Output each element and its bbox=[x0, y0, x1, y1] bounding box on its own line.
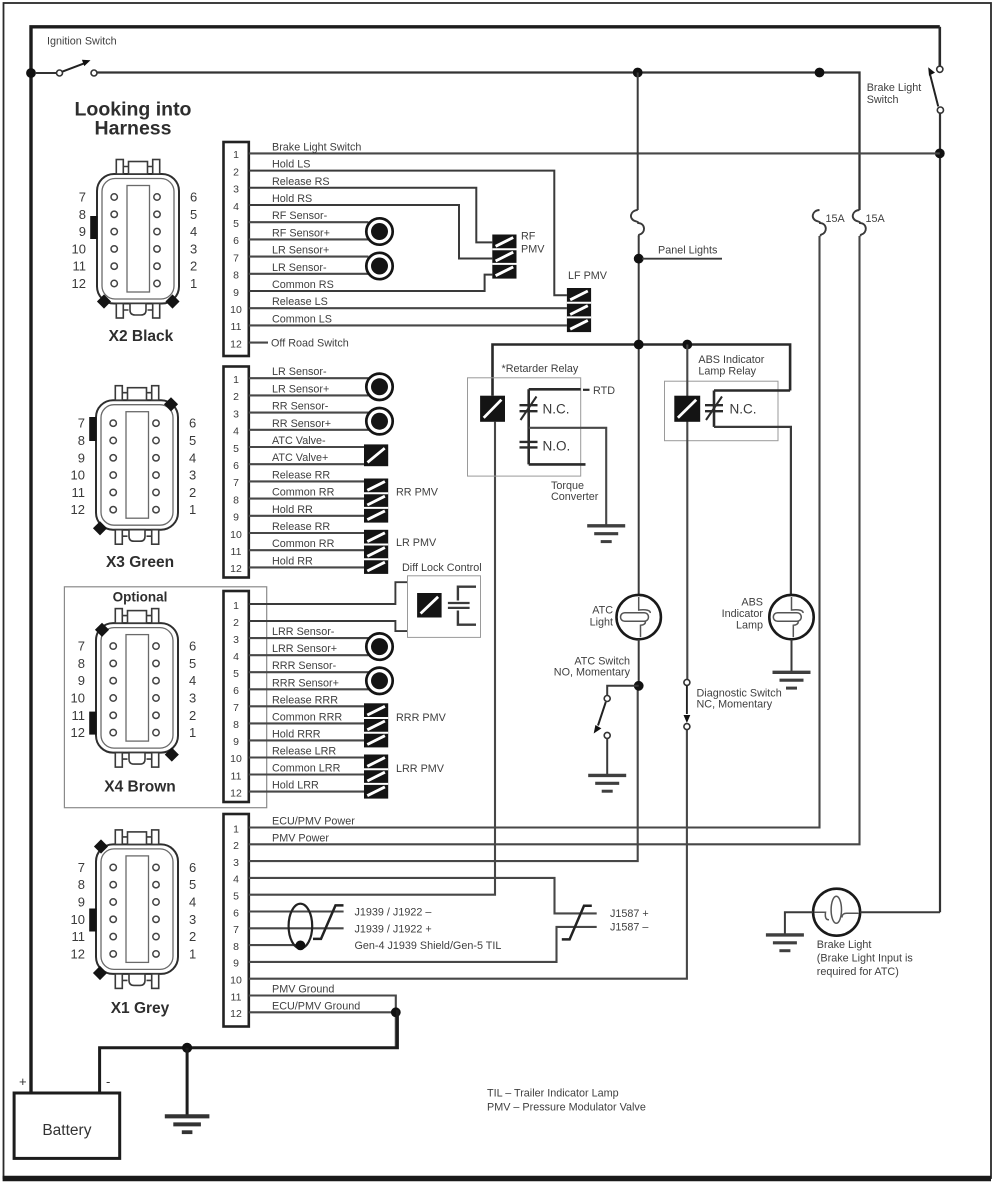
wire X1-6 J1939- bbox=[249, 910, 344, 912]
svg-text:5: 5 bbox=[189, 877, 196, 892]
wire X2-10 release LS to LF PMV bbox=[249, 307, 567, 309]
ABS relay coil bbox=[674, 396, 700, 422]
svg-text:5: 5 bbox=[190, 207, 197, 222]
wire ATC light to junction bbox=[638, 639, 640, 686]
svg-text:Ignition Switch: Ignition Switch bbox=[47, 36, 117, 48]
svg-text:X4 Brown: X4 Brown bbox=[104, 779, 175, 796]
svg-text:4: 4 bbox=[233, 426, 239, 438]
svg-text:Release RS: Release RS bbox=[272, 176, 330, 188]
connector X1 bottom-left lock tab bbox=[93, 966, 107, 980]
svg-text:1: 1 bbox=[189, 725, 196, 740]
svg-text:Indicator: Indicator bbox=[722, 608, 764, 620]
wire X3-12 hold RR bbox=[249, 566, 364, 568]
svg-text:PMV: PMV bbox=[521, 244, 545, 256]
wire X4-6 RRR sensor+ bbox=[249, 688, 369, 690]
connector X4 body bbox=[96, 609, 178, 768]
svg-text:N.C.: N.C. bbox=[543, 402, 570, 417]
wire ABS relay coil vertical bbox=[686, 345, 688, 680]
connector X1 terminal strip bbox=[224, 814, 249, 1027]
wire X4-2 to diff lock coil bbox=[249, 618, 430, 632]
svg-text:J1587 +: J1587 + bbox=[610, 908, 649, 920]
svg-text:TIL – Trailer Indicator Lamp: TIL – Trailer Indicator Lamp bbox=[487, 1088, 619, 1100]
wire junction to chassis ground bbox=[186, 1048, 189, 1116]
wire ABS relay NC top feed bbox=[714, 389, 790, 392]
svg-text:10: 10 bbox=[71, 468, 85, 483]
svg-text:ATC Valve+: ATC Valve+ bbox=[272, 452, 328, 464]
svg-text:Converter: Converter bbox=[551, 491, 599, 503]
node junction battery ground bbox=[182, 1043, 192, 1053]
svg-text:12: 12 bbox=[230, 1008, 242, 1020]
valve LRR PMV bbox=[364, 755, 388, 799]
svg-text:11: 11 bbox=[231, 770, 242, 782]
svg-text:Panel Lights: Panel Lights bbox=[658, 245, 718, 257]
diff lock control group box bbox=[408, 576, 481, 638]
wire retarder NC top to RTD bbox=[529, 388, 581, 391]
svg-text:9: 9 bbox=[78, 450, 85, 465]
node junction bus/ATC light bbox=[634, 340, 644, 350]
wire X3-10 release RR bbox=[249, 532, 364, 534]
svg-text:12: 12 bbox=[72, 276, 86, 291]
svg-text:10: 10 bbox=[230, 753, 242, 765]
node J1939 shield tie bbox=[296, 941, 306, 951]
connector X1 key mark bbox=[89, 909, 96, 932]
svg-text:7: 7 bbox=[233, 924, 239, 936]
connector X1 body bbox=[96, 830, 178, 989]
svg-text:3: 3 bbox=[190, 241, 197, 256]
svg-text:Gen-4 J1939 Shield/Gen-5 TIL: Gen-4 J1939 Shield/Gen-5 TIL bbox=[355, 940, 502, 952]
svg-text:12: 12 bbox=[71, 502, 85, 517]
wire X1-12 ECU/PMV ground bbox=[249, 1012, 396, 1048]
wire brake light to ground bbox=[785, 912, 813, 933]
svg-text:2: 2 bbox=[233, 840, 239, 852]
svg-text:-: - bbox=[106, 1074, 110, 1089]
svg-text:Common RR: Common RR bbox=[272, 487, 335, 499]
svg-text:Battery: Battery bbox=[42, 1122, 91, 1139]
fuse 15A no.1 bbox=[813, 210, 826, 236]
wire retarder common to torque converter ground bbox=[529, 428, 607, 525]
wire X3-9 hold RR bbox=[249, 515, 364, 517]
wire X2-8 LR sensor- bbox=[249, 273, 369, 275]
svg-text:PMV – Pressure Modulator Valve: PMV – Pressure Modulator Valve bbox=[487, 1102, 646, 1114]
svg-text:2: 2 bbox=[233, 617, 239, 629]
svg-text:3: 3 bbox=[233, 184, 239, 196]
valve LR PMV bbox=[364, 530, 388, 574]
J1939 twisted pair mark bbox=[313, 905, 344, 939]
svg-text:Hold LS: Hold LS bbox=[272, 159, 310, 171]
svg-text:Diff Lock Control: Diff Lock Control bbox=[402, 562, 482, 574]
svg-text:1: 1 bbox=[190, 276, 197, 291]
svg-text:7: 7 bbox=[78, 416, 85, 431]
connector X4 pin numbers left bbox=[71, 639, 85, 741]
svg-text:5: 5 bbox=[189, 656, 196, 671]
svg-text:X1 Grey: X1 Grey bbox=[111, 1000, 170, 1017]
wire X1-2 PMV power to fuse 2 bbox=[249, 236, 860, 844]
wire X1-4 to J1587+ bbox=[249, 878, 597, 914]
wire X4-4 LRR sensor+ bbox=[249, 654, 369, 656]
valve LF PMV bbox=[567, 288, 591, 332]
wire X1-5 to retarder relay coil bbox=[249, 422, 495, 895]
wire X4-10 release LRR bbox=[249, 756, 364, 758]
svg-text:15A: 15A bbox=[826, 213, 846, 225]
wire X3-2 LR sensor+ bbox=[249, 394, 369, 396]
wire ABS relay NC out to ABS lamp bbox=[714, 427, 791, 595]
svg-text:RF Sensor-: RF Sensor- bbox=[272, 210, 328, 222]
svg-text:NC, Momentary: NC, Momentary bbox=[697, 699, 773, 711]
wire X1-8 J1939 shield bbox=[249, 944, 299, 946]
svg-text:1: 1 bbox=[189, 502, 196, 517]
svg-text:8: 8 bbox=[78, 877, 85, 892]
diagnostic switch bbox=[684, 679, 691, 729]
svg-text:ECU/PMV Power: ECU/PMV Power bbox=[272, 816, 355, 828]
svg-text:7: 7 bbox=[79, 190, 86, 205]
wire X2-5 RF sensor- bbox=[249, 221, 369, 223]
svg-text:7: 7 bbox=[78, 639, 85, 654]
svg-text:RR Sensor+: RR Sensor+ bbox=[272, 418, 331, 430]
svg-text:4: 4 bbox=[190, 224, 197, 239]
wire X3-5 ATC valve- bbox=[249, 446, 364, 448]
ATC switch bbox=[594, 696, 611, 739]
svg-text:9: 9 bbox=[78, 673, 85, 688]
LR wheel speed sensor (axle 2) bbox=[366, 374, 392, 400]
svg-text:LRR Sensor+: LRR Sensor+ bbox=[272, 643, 337, 655]
svg-text:9: 9 bbox=[233, 736, 239, 748]
svg-text:LRR PMV: LRR PMV bbox=[396, 763, 445, 775]
wire frame drop to brake light switch bbox=[938, 27, 941, 67]
ABS relay contact N.C. bbox=[705, 391, 723, 427]
svg-text:10: 10 bbox=[71, 691, 85, 706]
svg-text:3: 3 bbox=[189, 912, 196, 927]
svg-text:Light: Light bbox=[590, 617, 613, 629]
wire junction to ATC switch bbox=[607, 686, 639, 696]
diff lock control coil bbox=[417, 593, 442, 618]
svg-text:*Retarder Relay: *Retarder Relay bbox=[502, 363, 579, 375]
svg-text:Brake Light Switch: Brake Light Switch bbox=[272, 141, 361, 153]
svg-text:LR PMV: LR PMV bbox=[396, 537, 437, 549]
LRR wheel speed sensor bbox=[366, 633, 392, 659]
svg-text:PMV Power: PMV Power bbox=[272, 832, 329, 844]
svg-text:6: 6 bbox=[233, 907, 239, 919]
wire X1-9 to J1587- bbox=[249, 927, 597, 962]
pin numbers X3 strip bbox=[230, 374, 242, 575]
svg-text:3: 3 bbox=[233, 857, 239, 869]
wire ATC switch to ground bbox=[606, 738, 608, 774]
svg-text:5: 5 bbox=[189, 433, 196, 448]
svg-text:LF PMV: LF PMV bbox=[568, 270, 608, 282]
node junction brake light switch / X2 pin1 bbox=[935, 149, 945, 159]
connector X4 top-left lock tab bbox=[95, 623, 109, 637]
svg-text:Off Road Switch: Off Road Switch bbox=[271, 338, 349, 350]
svg-text:11: 11 bbox=[231, 546, 242, 558]
fuse panel lights bbox=[631, 210, 644, 236]
diff lock control contact bbox=[448, 587, 476, 625]
svg-text:Common LS: Common LS bbox=[272, 313, 332, 325]
svg-text:J1939 / J1922 +: J1939 / J1922 + bbox=[355, 923, 432, 935]
ground torque converter bbox=[587, 526, 625, 542]
svg-text:(Brake Light Input is: (Brake Light Input is bbox=[817, 952, 914, 964]
svg-text:8: 8 bbox=[233, 719, 239, 731]
svg-text:7: 7 bbox=[78, 860, 85, 875]
svg-text:X2 Black: X2 Black bbox=[109, 328, 174, 345]
svg-text:11: 11 bbox=[72, 485, 86, 500]
wire X4-9 hold RRR bbox=[249, 739, 364, 741]
valve ATC bbox=[364, 444, 388, 466]
svg-text:1: 1 bbox=[233, 600, 239, 612]
svg-text:ATC: ATC bbox=[592, 605, 613, 617]
svg-text:Common LRR: Common LRR bbox=[272, 763, 341, 775]
svg-text:J1939 / J1922 –: J1939 / J1922 – bbox=[355, 907, 432, 919]
fuse 15A no.2 bbox=[853, 210, 866, 236]
svg-text:Release RR: Release RR bbox=[272, 521, 330, 533]
svg-text:6: 6 bbox=[189, 860, 196, 875]
wire X3-11 common RR bbox=[249, 549, 364, 551]
wire X3-1 LR sensor- bbox=[249, 377, 369, 379]
svg-text:NO, Momentary: NO, Momentary bbox=[554, 667, 631, 679]
wire retarder NO stub bbox=[529, 463, 586, 466]
svg-text:8: 8 bbox=[233, 270, 239, 282]
svg-text:8: 8 bbox=[78, 656, 85, 671]
svg-text:1: 1 bbox=[233, 149, 239, 161]
connector X2 bottom-right lock tab bbox=[165, 294, 179, 308]
svg-text:J1587 –: J1587 – bbox=[610, 922, 648, 934]
svg-text:Release RRR: Release RRR bbox=[272, 694, 338, 706]
svg-text:Hold RS: Hold RS bbox=[272, 193, 312, 205]
wire X4-12 hold LRR bbox=[249, 791, 364, 793]
svg-text:X3 Green: X3 Green bbox=[106, 554, 174, 571]
node junction on left frame bbox=[26, 68, 36, 78]
wire X2-6 RF sensor+ bbox=[249, 238, 369, 240]
svg-text:6: 6 bbox=[233, 460, 239, 472]
wire brake light switch down right side bbox=[939, 113, 941, 912]
svg-text:6: 6 bbox=[190, 190, 197, 205]
svg-text:RR Sensor-: RR Sensor- bbox=[272, 401, 329, 413]
retarder relay coil bbox=[480, 396, 505, 422]
connector X4 pin numbers right bbox=[189, 639, 196, 741]
wire X3-7 release RR bbox=[249, 480, 364, 482]
connector X3 terminal strip bbox=[224, 367, 249, 578]
connector X4 terminal strip bbox=[224, 591, 249, 802]
brake light switch bbox=[928, 66, 943, 113]
ABS relay group box bbox=[665, 381, 779, 441]
svg-text:ECU/PMV Ground: ECU/PMV Ground bbox=[272, 1000, 360, 1012]
svg-text:Release LS: Release LS bbox=[272, 296, 328, 308]
connector X3 pin numbers left bbox=[71, 416, 85, 518]
node junction bus/ABS relay coil bbox=[682, 340, 692, 350]
svg-text:RTD: RTD bbox=[593, 385, 615, 397]
svg-text:ABS: ABS bbox=[741, 597, 763, 609]
connector X2 terminal strip bbox=[224, 142, 249, 356]
wire X3-4 RR sensor+ bbox=[249, 429, 369, 431]
wire X2-4 hold RS to RF PMV bbox=[249, 205, 492, 259]
svg-text:5: 5 bbox=[233, 218, 239, 230]
wire panel lights stub bbox=[642, 258, 722, 260]
wire X1-11 PMV ground bbox=[249, 996, 396, 1013]
connector X1 top-left lock tab bbox=[94, 839, 108, 853]
svg-text:8: 8 bbox=[233, 494, 239, 506]
svg-text:12: 12 bbox=[230, 787, 242, 799]
svg-text:7: 7 bbox=[233, 477, 239, 489]
node junction pin11/pin12 ground tie bbox=[391, 1007, 401, 1017]
svg-text:7: 7 bbox=[233, 252, 239, 264]
lamp brake light bbox=[813, 889, 860, 936]
svg-text:2: 2 bbox=[189, 929, 196, 944]
retarder relay contact N.C. bbox=[520, 389, 538, 464]
svg-text:2: 2 bbox=[190, 259, 197, 274]
svg-text:11: 11 bbox=[231, 991, 242, 1003]
svg-text:RF: RF bbox=[521, 231, 536, 243]
svg-text:15A: 15A bbox=[866, 213, 886, 225]
svg-text:8: 8 bbox=[78, 433, 85, 448]
svg-text:required for ATC): required for ATC) bbox=[817, 966, 899, 978]
svg-text:10: 10 bbox=[230, 529, 242, 541]
svg-text:2: 2 bbox=[189, 708, 196, 723]
wire below panel fuse to ATC light bbox=[638, 236, 640, 595]
svg-text:RR PMV: RR PMV bbox=[396, 486, 439, 498]
connector X4 bottom-right lock tab bbox=[165, 748, 179, 762]
svg-text:Common RR: Common RR bbox=[272, 538, 335, 550]
svg-text:2: 2 bbox=[233, 391, 239, 403]
connector X3 bottom-left lock tab bbox=[93, 521, 107, 535]
svg-text:ABS Indicator: ABS Indicator bbox=[698, 354, 764, 366]
svg-text:LR Sensor-: LR Sensor- bbox=[272, 262, 327, 274]
svg-text:LR Sensor-: LR Sensor- bbox=[272, 366, 327, 378]
ground ABS indicator lamp bbox=[773, 672, 811, 688]
svg-text:9: 9 bbox=[233, 287, 239, 299]
svg-text:+: + bbox=[19, 1074, 27, 1089]
connector X1 pin numbers left bbox=[71, 860, 85, 962]
wire X4-3 LRR sensor- bbox=[249, 637, 369, 639]
svg-text:2: 2 bbox=[233, 166, 239, 178]
wire X3-6 ATC valve+ bbox=[249, 463, 364, 465]
wire ABS lamp to ground bbox=[791, 639, 793, 671]
valve RRR PMV bbox=[364, 703, 388, 747]
svg-text:10: 10 bbox=[230, 975, 242, 987]
wire X2-11 common LS to LF PMV bbox=[249, 324, 567, 326]
svg-text:12: 12 bbox=[230, 563, 242, 575]
svg-text:6: 6 bbox=[189, 639, 196, 654]
ignition switch bbox=[35, 60, 97, 76]
wire relay feed bus bbox=[493, 345, 791, 396]
svg-text:Common RS: Common RS bbox=[272, 279, 334, 291]
connector X3 top-right lock tab bbox=[164, 397, 178, 411]
wire X4-1 to diff lock coil bbox=[249, 582, 430, 604]
svg-text:Hold RR: Hold RR bbox=[272, 555, 313, 567]
svg-text:12: 12 bbox=[71, 725, 85, 740]
wire X2-12 off road switch stub bbox=[249, 342, 268, 344]
svg-text:12: 12 bbox=[71, 946, 85, 961]
optional group box bbox=[64, 587, 266, 808]
svg-text:3: 3 bbox=[233, 408, 239, 420]
svg-text:5: 5 bbox=[233, 668, 239, 680]
LR wheel speed sensor bbox=[366, 253, 392, 279]
svg-text:6: 6 bbox=[233, 685, 239, 697]
wire X4-5 RRR sensor- bbox=[249, 671, 369, 673]
svg-text:9: 9 bbox=[79, 224, 86, 239]
svg-text:6: 6 bbox=[189, 416, 196, 431]
svg-text:RRR Sensor+: RRR Sensor+ bbox=[272, 677, 339, 689]
svg-text:1: 1 bbox=[233, 374, 239, 386]
RR wheel speed sensor bbox=[366, 408, 392, 434]
svg-text:10: 10 bbox=[71, 912, 85, 927]
svg-text:LR Sensor+: LR Sensor+ bbox=[272, 383, 329, 395]
connector X2 key mark bbox=[90, 216, 97, 239]
wire X2-9 common RS to RF PMV bbox=[249, 275, 492, 291]
connector X4 key mark bbox=[89, 712, 96, 735]
wire X3-3 RR sensor- bbox=[249, 412, 369, 414]
wire X1-7 J1939+ bbox=[249, 927, 344, 929]
svg-text:1: 1 bbox=[189, 946, 196, 961]
svg-text:Lamp Relay: Lamp Relay bbox=[698, 366, 756, 378]
svg-text:Release LRR: Release LRR bbox=[272, 746, 336, 758]
connector X2 pin numbers right bbox=[190, 190, 197, 292]
wire X3-8 common RR bbox=[249, 498, 364, 500]
svg-text:RF Sensor+: RF Sensor+ bbox=[272, 227, 330, 239]
svg-text:4: 4 bbox=[233, 651, 239, 663]
retarder relay group box bbox=[468, 378, 581, 476]
svg-text:Hold LRR: Hold LRR bbox=[272, 780, 319, 792]
svg-text:Lamp: Lamp bbox=[736, 620, 763, 632]
wire X1-1 ECU/PMV power to fuse 1 bbox=[249, 236, 820, 828]
svg-text:Hold RRR: Hold RRR bbox=[272, 728, 321, 740]
pin numbers X2 strip bbox=[230, 149, 242, 350]
svg-text:2: 2 bbox=[189, 485, 196, 500]
svg-text:LR Sensor+: LR Sensor+ bbox=[272, 245, 329, 257]
wire brake light to switch drop bbox=[860, 911, 940, 913]
svg-text:5: 5 bbox=[233, 443, 239, 455]
svg-text:4: 4 bbox=[189, 673, 196, 688]
RTD stub bbox=[583, 389, 590, 391]
wire battery negative to ECU grounds bbox=[100, 1010, 398, 1093]
svg-text:3: 3 bbox=[233, 634, 239, 646]
wire panel lights vertical bbox=[637, 73, 639, 211]
svg-text:4: 4 bbox=[189, 895, 196, 910]
wire X2-7 LR sensor+ bbox=[249, 256, 369, 258]
lamp ATC light bbox=[617, 595, 661, 639]
svg-text:11: 11 bbox=[231, 321, 242, 333]
RRR wheel speed sensor bbox=[366, 668, 392, 694]
svg-text:4: 4 bbox=[233, 201, 239, 213]
svg-text:11: 11 bbox=[73, 259, 87, 274]
ground battery (large) bbox=[165, 1116, 210, 1132]
pin numbers X1 strip bbox=[230, 823, 242, 1020]
ground ATC switch bbox=[588, 775, 626, 791]
wire ignition feed across top bbox=[97, 73, 860, 211]
node junction ignition/panel-light wire bbox=[633, 68, 643, 78]
svg-text:ATC Valve-: ATC Valve- bbox=[272, 435, 326, 447]
wire X2-2 hold LS to LF PMV bbox=[249, 171, 567, 296]
wire X4-11 common LRR bbox=[249, 773, 364, 775]
svg-text:8: 8 bbox=[79, 207, 86, 222]
svg-text:Release RR: Release RR bbox=[272, 469, 330, 481]
svg-text:1: 1 bbox=[233, 823, 239, 835]
retarder relay contact N.O. bbox=[520, 442, 538, 448]
connector X1 pin numbers right bbox=[189, 860, 196, 962]
svg-text:10: 10 bbox=[230, 304, 242, 316]
svg-text:5: 5 bbox=[233, 891, 239, 903]
svg-text:RRR PMV: RRR PMV bbox=[396, 712, 447, 724]
svg-text:Brake Light: Brake Light bbox=[867, 82, 922, 94]
svg-text:9: 9 bbox=[233, 512, 239, 524]
J1939 shield ellipse bbox=[289, 904, 313, 949]
svg-text:N.C.: N.C. bbox=[730, 402, 757, 417]
svg-text:Switch: Switch bbox=[867, 94, 899, 106]
pin numbers X4 strip bbox=[230, 600, 242, 800]
wire X2-3 release RS to RF PMV bbox=[249, 188, 492, 243]
wire X4-8 common RRR bbox=[249, 722, 364, 724]
svg-text:PMV Ground: PMV Ground bbox=[272, 984, 334, 996]
J1587 twisted pair mark bbox=[562, 906, 592, 940]
svg-text:8: 8 bbox=[233, 941, 239, 953]
connector X3 pin numbers right bbox=[189, 416, 196, 518]
